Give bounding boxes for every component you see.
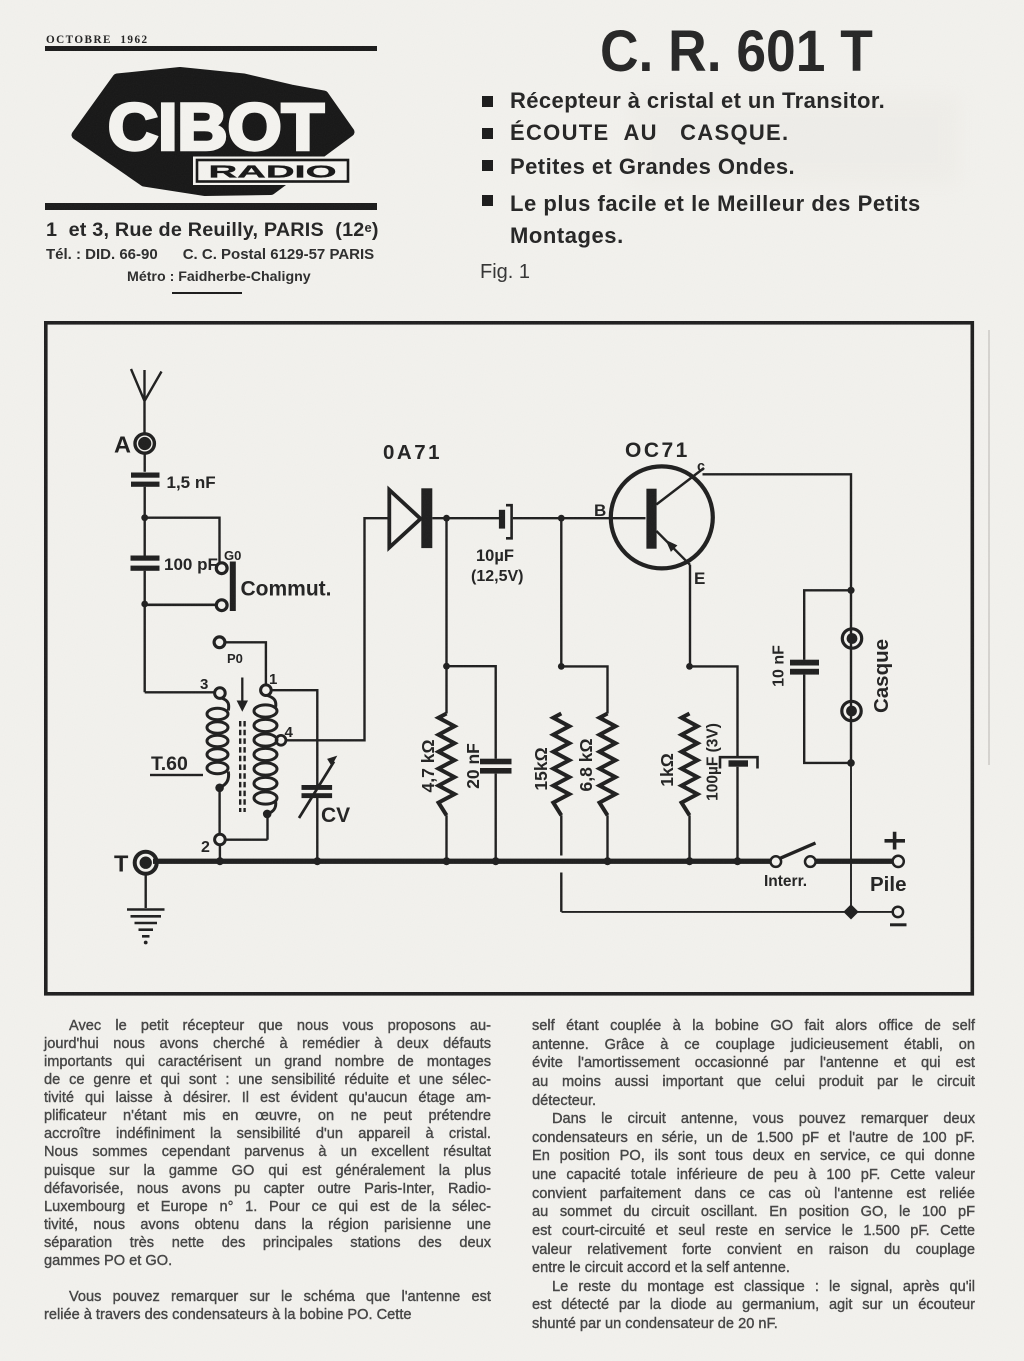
svg-text:CV: CV — [321, 804, 350, 827]
transistor OC71 — [611, 466, 713, 568]
wire stub to 6,8k — [561, 666, 607, 713]
svg-text:A: A — [114, 432, 131, 458]
switch Interr contact 2 — [805, 856, 816, 867]
switch contact GO — [216, 563, 227, 574]
svg-text:G0: G0 — [224, 548, 241, 563]
wire casque branch — [850, 590, 852, 763]
node junction below C2 — [141, 601, 148, 608]
capacitor 20nF — [480, 759, 512, 765]
wire casque to minus line — [850, 763, 852, 912]
resistor 15kOhm — [553, 714, 569, 816]
wire PO to terminal 1 — [225, 642, 266, 685]
svg-text:1,5 nF: 1,5 nF — [167, 473, 216, 492]
bus wire (common rail) — [153, 859, 772, 864]
node junction bus CV — [313, 857, 321, 865]
svg-text:c: c — [697, 459, 705, 475]
body text left column — [44, 1017, 491, 1324]
svg-text:4: 4 — [285, 724, 294, 741]
battery plus sign — [885, 832, 906, 850]
node junction bus R4 — [686, 857, 694, 865]
svg-text:E: E — [694, 569, 705, 588]
svg-text:15kΩ: 15kΩ — [531, 747, 551, 790]
svg-text:OC71: OC71 — [625, 439, 690, 462]
switch contact lower — [216, 600, 227, 611]
wire terminal 1 to CV — [271, 690, 317, 785]
svg-text:3: 3 — [200, 676, 208, 693]
svg-text:B: B — [594, 501, 606, 520]
wire emitter down — [689, 565, 691, 667]
svg-text:2: 2 — [201, 839, 210, 856]
diode 0A71 — [389, 490, 420, 548]
svg-text:4,7 kΩ: 4,7 kΩ — [418, 740, 438, 793]
casque jack 2 — [842, 701, 861, 720]
wire CV to bus — [316, 798, 318, 859]
svg-text:T.60: T.60 — [151, 753, 188, 775]
capacitor 10nF — [790, 660, 819, 666]
svg-text:10µF: 10µF — [476, 547, 514, 565]
transformer core — [240, 721, 244, 812]
body text right column — [532, 1017, 975, 1334]
faint page-edge artifacts — [988, 330, 990, 765]
node junction below diode — [443, 515, 450, 522]
wire C1 to C2 — [143, 487, 145, 556]
node junction bus T2 — [216, 857, 224, 865]
wire stub to 20nF — [447, 666, 496, 759]
svg-text:Commut.: Commut. — [241, 578, 332, 601]
node junction below C1 — [141, 514, 148, 521]
wire diode junction down — [445, 518, 447, 666]
node junction collector branch — [847, 587, 854, 594]
wire 10uF to base — [513, 517, 646, 519]
wire 10nF to bottom junction — [804, 675, 851, 763]
svg-text:Interr.: Interr. — [764, 873, 807, 890]
wire terminal 4 to diode — [286, 518, 389, 740]
resistor 4,7kOhm — [439, 714, 455, 816]
terminal T — [135, 852, 157, 874]
casque jack 1 — [842, 629, 861, 648]
node junction R4 top — [686, 663, 693, 670]
capacitor 100uF (3V) — [720, 757, 758, 768]
svg-text:(12,5V): (12,5V) — [471, 568, 523, 585]
wire A to C1 — [143, 453, 145, 472]
header date — [46, 34, 149, 46]
svg-text:T: T — [114, 851, 129, 877]
svg-text:100µF (3V): 100µF (3V) — [705, 723, 722, 801]
wire terminal 2 to secondary bottom — [220, 814, 268, 859]
wire stub to 100uF — [690, 666, 738, 757]
label 20nF — [463, 743, 483, 789]
svg-text:1kΩ: 1kΩ — [657, 753, 677, 787]
switch Interr lever — [780, 843, 816, 859]
label 1kOhm — [657, 753, 677, 787]
terminal 1 — [261, 685, 272, 696]
node junction casque bottom — [847, 759, 855, 767]
wire to 10nF — [804, 590, 851, 659]
resistor 6,8kOhm — [600, 714, 616, 816]
node junction bus R1 — [443, 857, 451, 865]
node A terminal — [135, 434, 154, 453]
wire junction to terminal 3 — [145, 691, 215, 693]
svg-text:1: 1 — [269, 671, 277, 688]
wire collector to right — [703, 474, 852, 590]
capacitor 100pF — [131, 556, 160, 561]
wire junction to GO contact — [145, 518, 220, 563]
switch contact PO — [214, 637, 225, 648]
svg-text:6,8 kΩ: 6,8 kΩ — [576, 739, 596, 792]
top rule — [45, 46, 377, 51]
svg-text:20 nF: 20 nF — [463, 743, 483, 789]
wire C2 down — [143, 571, 145, 693]
svg-text:P0: P0 — [227, 651, 243, 666]
ground — [144, 873, 146, 908]
svg-text:Casque: Casque — [870, 639, 893, 713]
node junction minus line — [843, 904, 858, 919]
terminal 2 — [215, 834, 226, 845]
variable capacitor CV — [302, 785, 333, 790]
primary coil — [207, 698, 229, 787]
commutator bar — [230, 562, 236, 612]
svg-text:100 pF: 100 pF — [164, 555, 218, 574]
node junction R1 top — [443, 663, 450, 670]
wire diode to 10uF — [432, 517, 499, 519]
title — [600, 18, 850, 85]
label 6,8kOhm — [576, 739, 596, 792]
node junction bus 20nF — [492, 857, 500, 865]
antenna — [131, 369, 162, 435]
resistor 1kOhm — [682, 714, 698, 816]
capacitor 1,5nF — [131, 473, 160, 478]
node junction bus R3 — [604, 857, 612, 865]
battery minus terminal — [893, 907, 903, 917]
secondary coil — [254, 696, 277, 814]
casque label — [870, 639, 893, 713]
battery minus sign — [890, 923, 907, 926]
label 4,7kOhm — [418, 740, 438, 793]
svg-text:10 nF: 10 nF — [771, 645, 788, 687]
capacitor 10uF (12,5V) — [499, 510, 505, 529]
node junction R2 top — [558, 663, 565, 670]
node junction at 15k top wire — [558, 515, 565, 522]
wire junction to lower switch contact — [145, 603, 216, 606]
CIBOT logo — [45, 60, 380, 205]
address — [46, 219, 378, 242]
svg-text:0A71: 0A71 — [383, 441, 442, 464]
tuning arrow — [241, 678, 243, 702]
wire base junction down — [560, 518, 562, 666]
svg-text:Pile: Pile — [870, 873, 906, 896]
bottom rule of logo block — [45, 203, 377, 210]
bullet list — [482, 96, 493, 107]
fig label — [480, 261, 530, 284]
terminal 4 — [276, 735, 286, 745]
battery minus wire — [562, 911, 894, 913]
switch Interr contact 1 — [771, 856, 782, 867]
wire coil bottom to terminal 2 — [218, 788, 220, 834]
terminal 3 — [215, 688, 226, 699]
node junction bus 100uF — [734, 857, 742, 865]
label 15kOhm — [531, 747, 551, 790]
label 100uF (3V) — [705, 723, 722, 801]
battery plus terminal — [893, 856, 904, 867]
